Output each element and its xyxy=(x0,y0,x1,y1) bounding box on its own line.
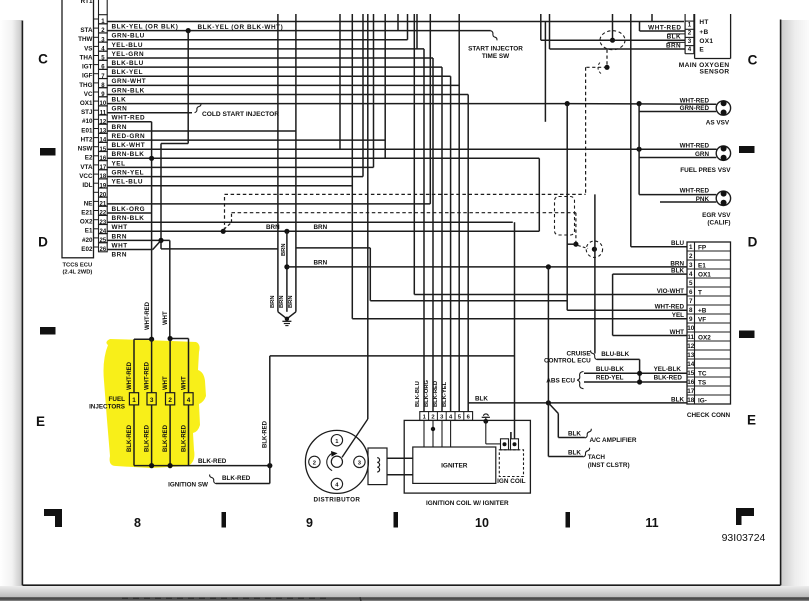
svg-text:1: 1 xyxy=(688,22,692,29)
distributor body circle xyxy=(305,430,368,493)
wire 26 diagonal merge xyxy=(153,240,161,249)
ECU pin 1 box xyxy=(99,15,108,24)
svg-text:OX1: OX1 xyxy=(699,38,713,45)
wire +B riser: wire10 node down to check conn pin 8 xyxy=(566,104,568,311)
svg-text:PNK: PNK xyxy=(696,196,710,203)
svg-text:BLK-BLU: BLK-BLU xyxy=(112,60,144,67)
link horizontal y=247.9 xyxy=(296,247,370,249)
distributor rotor circle xyxy=(331,456,342,467)
igniter internal wires from pins xyxy=(423,420,425,447)
wire jog left xyxy=(161,143,188,145)
svg-text:9: 9 xyxy=(306,516,313,530)
svg-text:YEL: YEL xyxy=(112,160,126,167)
vertical wire from top section at x=398 xyxy=(397,14,399,31)
junction node xyxy=(565,101,570,106)
svg-text:WHT-RED: WHT-RED xyxy=(145,361,151,390)
main oxygen sensor connector: number boxes xyxy=(684,14,686,54)
svg-text:2: 2 xyxy=(313,461,316,467)
svg-text:BLU: BLU xyxy=(671,240,684,247)
wire from ECU pin 10 (GRN) xyxy=(107,103,567,105)
svg-text:BLK-RED: BLK-RED xyxy=(145,424,151,452)
rotor rotation arc with arrow xyxy=(327,453,332,470)
svg-text:GRN: GRN xyxy=(112,106,128,113)
wire WHT-RED to EGR VSV xyxy=(639,194,716,196)
wire GRN-RED stub to AS VSV xyxy=(639,111,716,113)
link vertical x=370.3 xyxy=(369,248,371,301)
page border left xyxy=(21,21,23,586)
next page dark bar xyxy=(0,597,809,601)
svg-text:GRN: GRN xyxy=(695,151,709,158)
svg-text:YEL-BLU: YEL-BLU xyxy=(112,179,144,186)
junction node wire 24 at BRN branch xyxy=(284,229,289,234)
svg-text:(2.4L 2WD): (2.4L 2WD) xyxy=(63,270,93,276)
svg-text:WHT: WHT xyxy=(163,311,169,325)
junction node xyxy=(149,337,154,342)
svg-text:BLK-YEL: BLK-YEL xyxy=(442,381,448,407)
svg-text:BLK-RED: BLK-RED xyxy=(433,381,439,407)
condenser node on box top xyxy=(483,419,488,424)
svg-text:7: 7 xyxy=(689,298,693,305)
condenser cap xyxy=(483,414,488,416)
junction node E1 branch xyxy=(284,264,289,269)
svg-text:WHT: WHT xyxy=(163,376,169,390)
svg-text:12: 12 xyxy=(687,343,695,350)
bottom tick 1 xyxy=(222,512,227,528)
ECU pin 10 box xyxy=(99,97,108,106)
svg-text:BLK-RED: BLK-RED xyxy=(263,420,269,448)
wire BRN/BLK riser x=548.4 xyxy=(547,267,549,403)
vertical wire from top section at x=652 xyxy=(651,14,653,22)
svg-text:GRN-BLK: GRN-BLK xyxy=(112,87,145,94)
svg-text:VTA: VTA xyxy=(80,164,93,171)
vertical wire from top section at x=408 xyxy=(407,14,409,40)
ECU pin 13 box xyxy=(99,124,108,133)
dashed shield horizontal y=194.4 xyxy=(225,193,586,195)
svg-text:BLK: BLK xyxy=(568,449,581,456)
ECU pin 3 stub xyxy=(94,36,99,38)
svg-text:WHT-RED: WHT-RED xyxy=(655,304,685,311)
ECU connector U1 TCCS ECU outer box xyxy=(62,0,94,258)
svg-text:BLK-RED: BLK-RED xyxy=(198,458,227,465)
vertical wire from top section at x=340 xyxy=(339,14,341,149)
page border bottom xyxy=(22,584,780,586)
svg-text:VCC: VCC xyxy=(79,173,93,180)
ignition switch hook xyxy=(210,475,216,484)
dashed link to shielded splice xyxy=(578,246,588,249)
wire from ECU pin 15 (BRN-BLK) xyxy=(107,148,716,150)
right page-edge gradient xyxy=(781,20,809,586)
junction node xyxy=(637,147,642,152)
svg-text:IGNITION SW: IGNITION SW xyxy=(168,481,208,488)
ECU pin 24 stub xyxy=(94,228,99,230)
svg-text:D: D xyxy=(748,235,758,250)
svg-text:RED-YEL: RED-YEL xyxy=(596,375,624,382)
svg-text:COLD START INJECTOR: COLD START INJECTOR xyxy=(202,111,279,118)
svg-text:(CALIF): (CALIF) xyxy=(707,220,730,227)
ECU pin 18 box xyxy=(99,170,108,179)
svg-text:START INJECTOR: START INJECTOR xyxy=(468,46,523,53)
faint next-page text noise xyxy=(122,597,361,601)
svg-text:WHT: WHT xyxy=(112,224,128,231)
igniter box xyxy=(413,447,496,483)
margin tick right lower xyxy=(739,331,755,339)
svg-text:THG: THG xyxy=(79,82,92,89)
svg-text:HT2: HT2 xyxy=(81,137,93,144)
junction node xyxy=(168,336,173,341)
vertical wire from top section at x=550 xyxy=(549,14,551,49)
svg-text:WHT-RED: WHT-RED xyxy=(680,97,710,104)
svg-text:E21: E21 xyxy=(81,209,93,216)
left page-edge gradient xyxy=(0,20,22,586)
svg-text:BLU-BLK: BLU-BLK xyxy=(596,366,624,373)
wire BLK-RED down to igniter pin 3 xyxy=(441,67,443,412)
ECU pin 26 stub xyxy=(94,246,99,248)
svg-text:BRN-BLK: BRN-BLK xyxy=(112,151,145,158)
link horizontal y=300.7 xyxy=(370,300,567,302)
svg-text:26: 26 xyxy=(100,247,107,253)
svg-text:YEL-GRN: YEL-GRN xyxy=(112,51,145,58)
wire BLK horizontal to check conn pin 18 xyxy=(468,402,687,404)
svg-text:BRN: BRN xyxy=(281,243,287,256)
svg-text:93I03724: 93I03724 xyxy=(722,532,766,544)
vertical wire from top section at x=541 xyxy=(540,14,542,40)
vertical wire from top section at x=612 xyxy=(612,14,614,40)
wire 9 BLK down to igniter pin 6 / check conn IG- xyxy=(467,95,469,412)
svg-text:BLK: BLK xyxy=(568,430,581,437)
tach hook xyxy=(583,448,589,457)
ECU pin 17 stub xyxy=(94,164,99,166)
shield drain node xyxy=(604,65,609,70)
svg-text:15: 15 xyxy=(687,370,695,377)
wire from ECU pin 4 (YEL-GRN) xyxy=(107,48,424,50)
ECU pin 11 stub xyxy=(94,109,99,111)
svg-text:FUEL PRES VSV: FUEL PRES VSV xyxy=(680,167,731,174)
injector top rail WHT-RED (cols 1-2) xyxy=(134,338,152,340)
svg-text:+B: +B xyxy=(698,307,707,314)
BRN V left arm xyxy=(278,312,287,319)
svg-text:BLK: BLK xyxy=(671,396,684,403)
svg-text:FUEL: FUEL xyxy=(109,396,126,403)
ECU pin 5 box xyxy=(99,51,108,60)
svg-text:IGNITION COIL W/ IGNITER: IGNITION COIL W/ IGNITER xyxy=(426,500,509,507)
wire PNK stub to EGR VSV xyxy=(660,201,716,203)
svg-text:AS VSV: AS VSV xyxy=(706,120,730,127)
dashed shield horizontal y=212.7 xyxy=(232,212,576,214)
pickup coil winding xyxy=(377,458,379,472)
svg-text:2: 2 xyxy=(431,414,434,420)
bottom corner mark right xyxy=(736,508,754,525)
ECU pin 23 box xyxy=(99,215,108,224)
svg-text:THW: THW xyxy=(78,36,92,43)
ECU pin 25 stub xyxy=(94,237,99,239)
svg-text:OX1: OX1 xyxy=(80,100,93,107)
ECU pin 8 stub xyxy=(94,82,99,84)
vertical wire from top section at x=631 xyxy=(630,14,632,247)
ECU pin 21 stub xyxy=(94,200,99,202)
svg-text:HT: HT xyxy=(699,19,708,26)
dashed shield drain vertical xyxy=(606,50,608,68)
ECU pin 23 stub xyxy=(94,219,99,221)
start injector time switch hook xyxy=(491,31,497,41)
dashed vertical x=231.5 xyxy=(231,213,233,223)
vertical wire from top section at x=278 xyxy=(277,14,279,312)
wire from ECU pin 19 () xyxy=(107,185,352,187)
injector 4 wire upper xyxy=(188,339,190,393)
svg-text:D: D xyxy=(38,235,48,250)
svg-text:IG-: IG- xyxy=(698,397,707,404)
svg-text:STA: STA xyxy=(80,27,93,34)
svg-text:BLK-WHT: BLK-WHT xyxy=(112,142,146,149)
ignition coil w/ igniter outer box xyxy=(404,420,530,493)
wire from ECU pin 26 (BRN) xyxy=(107,249,153,251)
wire from ECU pin 2 (GRN-BLU) xyxy=(107,30,490,32)
svg-text:VIO-WHT: VIO-WHT xyxy=(657,288,684,295)
svg-text:BLK: BLK xyxy=(112,97,127,104)
svg-text:CONTROL ECU: CONTROL ECU xyxy=(544,358,591,365)
svg-text:BLK: BLK xyxy=(475,395,488,402)
junction node xyxy=(546,264,551,269)
wire BLK-YEL down to igniter pin 4 xyxy=(450,76,452,411)
svg-text:4: 4 xyxy=(688,46,692,53)
svg-text:BLK-YEL (OR BLK-WHT): BLK-YEL (OR BLK-WHT) xyxy=(198,24,284,31)
svg-text:BRN: BRN xyxy=(314,260,328,267)
fuel injector 3 box xyxy=(147,393,156,405)
fuel injector 4 box xyxy=(184,393,193,405)
wire VIO-WHT to check conn pin 6 xyxy=(413,14,415,295)
svg-text:BLK-BLU: BLK-BLU xyxy=(415,381,421,407)
svg-text:4: 4 xyxy=(187,397,191,404)
wire from ECU pin 13 (RED-GRN) xyxy=(107,130,296,132)
distributor terminal 4 xyxy=(331,478,342,489)
ECU pin 2 stub xyxy=(94,27,99,29)
rotor contact line xyxy=(342,419,368,457)
svg-text:INJECTORS: INJECTORS xyxy=(89,404,125,411)
ECU pin 26 box xyxy=(99,243,108,252)
wire from ECU pin 23 (WHT) xyxy=(107,221,513,223)
ECU pin 14 box xyxy=(99,133,108,142)
ECU pin 17 box xyxy=(99,161,108,170)
wire BRN to oxygen pin 4 xyxy=(550,48,686,50)
dashed shield box around +B wire xyxy=(555,197,575,236)
svg-text:18: 18 xyxy=(687,397,695,404)
wire from ECU pin 12 (BRN) xyxy=(107,121,151,123)
svg-text:WHT-RED: WHT-RED xyxy=(680,142,710,149)
margin tick right upper xyxy=(739,146,755,153)
svg-text:BLK-RED: BLK-RED xyxy=(127,424,133,452)
wire RED-YEL from ABS ECU xyxy=(584,381,687,383)
ECU pin 11 box xyxy=(99,106,108,115)
ECU pin 6 stub xyxy=(94,64,99,66)
vertical wire from top section at x=417 xyxy=(416,14,418,49)
wire YEL to check conn pin 9 xyxy=(352,318,687,320)
ign coil center tower xyxy=(510,432,512,439)
svg-text:E01: E01 xyxy=(81,127,93,134)
wire BLU-BLK down to cruise control hook xyxy=(594,194,596,353)
injector 4 wire lower xyxy=(188,405,190,466)
wire WHT-RED to AS VSV (from wire 10) xyxy=(567,103,716,106)
wire from ECU pin 16 (YEL) xyxy=(107,157,539,159)
svg-text:WHT-RED: WHT-RED xyxy=(680,187,710,194)
vertical wire from top section at x=363 xyxy=(362,14,364,177)
svg-text:TC: TC xyxy=(698,370,707,377)
svg-text:TACH: TACH xyxy=(588,454,606,461)
ECU pin 20 box xyxy=(99,188,108,197)
wire BLK-RED vertical riser x=269.8 xyxy=(269,356,271,484)
svg-text:IGN COIL: IGN COIL xyxy=(497,478,525,485)
svg-text:BLK-ORG: BLK-ORG xyxy=(112,206,146,213)
wire from ECU pin 1 (BLK-YEL (OR BLK)) xyxy=(107,21,684,23)
ign coil primary terminal right xyxy=(511,439,519,450)
ECU pin 19 stub xyxy=(94,182,99,184)
svg-text:BRN: BRN xyxy=(112,252,128,259)
svg-text:VC: VC xyxy=(84,91,93,98)
svg-text:STJ: STJ xyxy=(81,109,93,116)
ground symbol at BRN junction xyxy=(285,317,289,321)
svg-text:YEL-BLU: YEL-BLU xyxy=(112,42,144,49)
wire BLK to A/C amplifier xyxy=(558,437,585,439)
junction node xyxy=(637,379,642,384)
junction node xyxy=(168,463,173,468)
svg-text:10: 10 xyxy=(687,325,695,332)
junction node wire 24 xyxy=(221,229,226,234)
ECU pin 19 box xyxy=(99,179,108,188)
FUEL PRES VSV solenoid valve xyxy=(716,146,730,160)
pickup coil wire lower xyxy=(387,474,413,476)
wire to A/C amplifier: diagonal xyxy=(548,403,558,414)
bottom corner mark left xyxy=(44,509,62,527)
injector 2 wire upper xyxy=(169,339,171,393)
svg-text:VS: VS xyxy=(84,45,92,52)
condenser stub xyxy=(485,418,487,421)
ECU pin 22 box xyxy=(99,206,108,215)
ECU pin 12 stub xyxy=(94,118,99,120)
main oxygen sensor labels box xyxy=(694,14,696,59)
wire from ECU pin 11 (WHT-RED) xyxy=(107,112,192,114)
svg-text:BLK-YEL: BLK-YEL xyxy=(112,69,144,76)
wire BLK-RED from ignition switch xyxy=(216,483,270,485)
wire from ECU pin 18 (YEL-BLU) xyxy=(107,176,363,178)
svg-text:BLK-RED: BLK-RED xyxy=(182,424,188,452)
injector 3 wire lower xyxy=(151,405,153,466)
wire from ECU pin 8 (GRN-BLK) xyxy=(107,84,459,86)
ECU pin 24 box xyxy=(99,225,108,234)
ECU pin 13 stub xyxy=(94,128,99,130)
bottom tick 3 xyxy=(566,512,571,528)
svg-text:OX2: OX2 xyxy=(698,334,711,341)
junction node on wire 16 xyxy=(149,156,154,161)
svg-text:3: 3 xyxy=(150,397,154,404)
svg-text:2: 2 xyxy=(168,397,172,404)
svg-text:8: 8 xyxy=(689,307,693,314)
svg-text:BLU-BLK: BLU-BLK xyxy=(601,351,629,358)
wire GRN stub to FUEL PRES VSV xyxy=(639,157,716,159)
wire from condenser node to ign coil xyxy=(485,421,487,444)
wire WHT vertical (pin 25 to injectors) xyxy=(169,240,171,338)
wire vertical x=639.1 linking VSV feeds xyxy=(638,104,640,195)
svg-text:BLK-RED: BLK-RED xyxy=(163,424,169,452)
svg-text:17: 17 xyxy=(687,388,695,395)
svg-text:YEL: YEL xyxy=(672,312,684,319)
margin tick left upper xyxy=(40,148,56,156)
injector 1 wire upper xyxy=(133,339,135,393)
shielded splice node xyxy=(592,247,597,252)
svg-text:A/C AMPLIFIER: A/C AMPLIFIER xyxy=(590,437,637,444)
svg-text:C: C xyxy=(748,53,758,68)
svg-text:TCCS ECU: TCCS ECU xyxy=(63,263,93,269)
wire from ECU pin 24 (BRN) xyxy=(107,230,539,232)
svg-text:GRN-RED: GRN-RED xyxy=(680,105,710,112)
wire vertical x=161 xyxy=(160,144,162,249)
svg-text:E1: E1 xyxy=(85,228,93,235)
svg-text:WHT-RED: WHT-RED xyxy=(127,361,133,390)
distributor terminal 1 xyxy=(331,435,342,446)
svg-text:BRN: BRN xyxy=(266,224,280,231)
dashed shield vertical from wire 24 xyxy=(224,194,226,231)
cold start injector connector hook xyxy=(195,104,201,113)
svg-text:SENSOR: SENSOR xyxy=(700,69,730,76)
wire BLU riser to check conn pin 1 xyxy=(631,246,687,248)
dashed circle around splice xyxy=(586,241,602,257)
ECU pin column cut top edges xyxy=(98,0,100,15)
junction node xyxy=(546,400,551,405)
ECU pin 4 stub xyxy=(94,45,99,47)
svg-text:E2: E2 xyxy=(85,155,93,162)
svg-text:BRN: BRN xyxy=(279,295,285,308)
wire from ECU pin 6 (BLK-YEL) xyxy=(107,66,442,68)
splice node xyxy=(573,242,578,247)
svg-text:NSW: NSW xyxy=(78,146,93,153)
check connector box xyxy=(687,242,731,404)
svg-text:+B: +B xyxy=(699,29,708,36)
svg-text:BRN: BRN xyxy=(112,233,128,240)
svg-text:BRN: BRN xyxy=(666,42,681,49)
svg-text:BLK-RED: BLK-RED xyxy=(222,475,251,482)
svg-text:13: 13 xyxy=(687,352,695,359)
svg-text:2: 2 xyxy=(689,253,693,260)
svg-text:3: 3 xyxy=(688,38,692,45)
ign coil primary terminal left xyxy=(501,439,509,450)
svg-text:ABS ECU: ABS ECU xyxy=(546,377,575,384)
svg-text:FP: FP xyxy=(698,244,707,251)
svg-text:8: 8 xyxy=(134,516,141,530)
ABS ECU brace xyxy=(577,372,583,389)
shielded junction on oxygen signal wire xyxy=(600,31,625,50)
svg-text:IDL: IDL xyxy=(82,182,92,189)
ign coil body dashed xyxy=(499,450,523,477)
svg-text:RT1: RT1 xyxy=(81,0,93,5)
ECU pin 1 stub xyxy=(94,18,99,20)
svg-text:BLK-YEL (OR BLK): BLK-YEL (OR BLK) xyxy=(112,24,179,31)
svg-text:1: 1 xyxy=(132,397,136,404)
svg-text:E: E xyxy=(36,414,45,429)
distributor terminal 2 xyxy=(309,456,320,467)
svg-text:E02: E02 xyxy=(81,246,93,253)
svg-text:WHT-RED: WHT-RED xyxy=(648,25,681,32)
svg-text:DISTRIBUTOR: DISTRIBUTOR xyxy=(314,497,361,504)
vertical wire from top section at x=368 xyxy=(367,14,369,419)
BRN V right arm xyxy=(287,312,296,319)
svg-text:14: 14 xyxy=(687,361,695,368)
wire from ECU pin 14 (BLK-WHT) xyxy=(107,139,385,141)
wire from ECU pin 7 (GRN-WHT) xyxy=(107,75,450,77)
wire BLK-BLU down to igniter pin 1 xyxy=(423,49,425,412)
wire BLK-RED horizontal to ignition coil xyxy=(270,355,515,357)
svg-text:BLK-ORG: BLK-ORG xyxy=(424,379,430,407)
ECU pin 14 stub xyxy=(94,137,99,139)
junction node pin3 internal xyxy=(431,427,435,431)
ECU pin 9 box xyxy=(99,88,108,97)
svg-text:VF: VF xyxy=(698,316,706,323)
